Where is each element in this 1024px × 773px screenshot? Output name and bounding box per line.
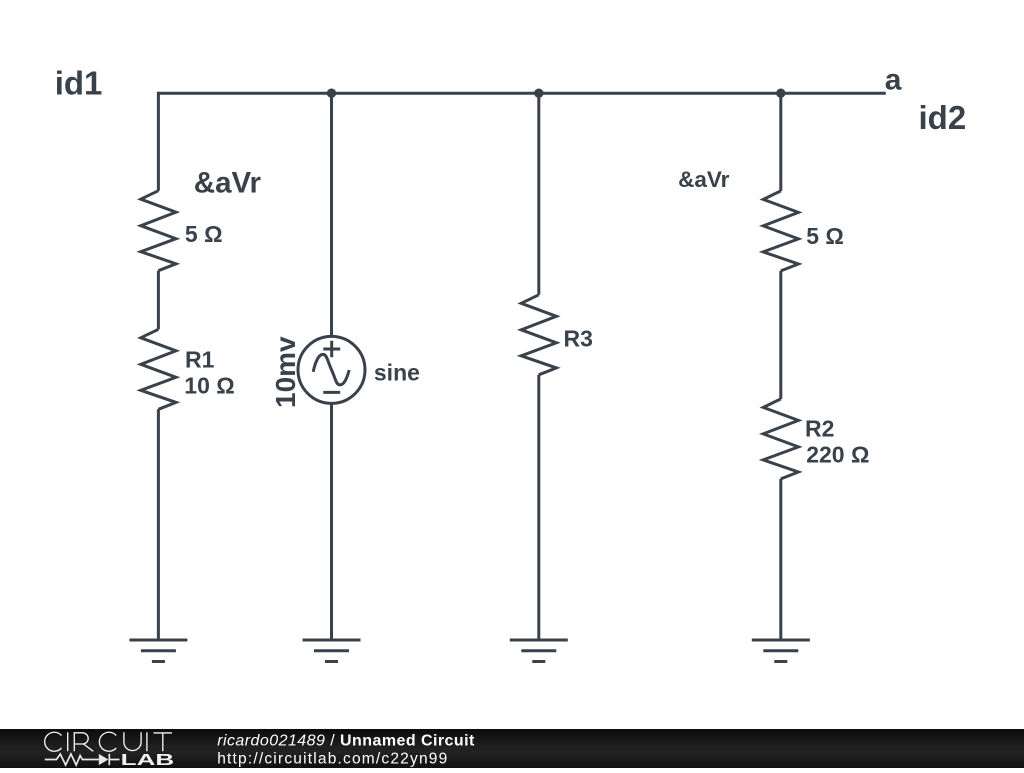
svg-text:10mv: 10mv bbox=[270, 336, 301, 408]
svg-text:id1: id1 bbox=[55, 64, 103, 101]
svg-text:LAB: LAB bbox=[121, 752, 175, 768]
svg-text:R1: R1 bbox=[185, 346, 215, 372]
svg-text:R2: R2 bbox=[805, 415, 834, 441]
svg-text:10 Ω: 10 Ω bbox=[184, 372, 234, 398]
svg-text:220 Ω: 220 Ω bbox=[806, 441, 869, 467]
svg-text:&aVr: &aVr bbox=[678, 167, 730, 192]
svg-text:id2: id2 bbox=[919, 99, 967, 136]
svg-text:&aVr: &aVr bbox=[194, 166, 262, 199]
svg-text:a: a bbox=[885, 63, 902, 96]
svg-text:5 Ω: 5 Ω bbox=[806, 223, 844, 249]
svg-text:ricardo021489 / Unnamed Circui: ricardo021489 / Unnamed Circuit bbox=[217, 733, 475, 750]
svg-text:http://circuitlab.com/c22yn99: http://circuitlab.com/c22yn99 bbox=[217, 750, 448, 767]
svg-text:R3: R3 bbox=[564, 325, 593, 351]
svg-text:sine: sine bbox=[374, 360, 420, 386]
svg-text:5 Ω: 5 Ω bbox=[185, 221, 223, 247]
